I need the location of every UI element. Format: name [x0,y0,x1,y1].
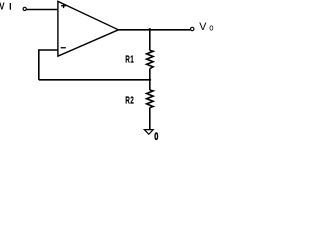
svg-text:R1: R1 [125,53,134,65]
svg-text:V: V [0,1,5,12]
svg-text:o: o [209,22,213,33]
svg-text:V: V [199,21,207,33]
svg-text:R2: R2 [125,94,134,106]
